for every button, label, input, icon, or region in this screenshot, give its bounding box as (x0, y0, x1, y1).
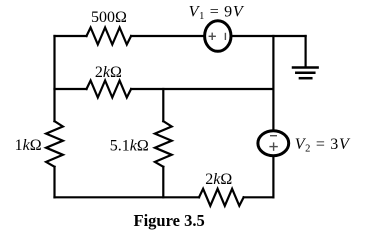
ground bar 3 (300, 77, 311, 80)
wire right rail upper segment (272, 36, 274, 131)
wire bottom rail right segment (244, 196, 274, 198)
wire left rail upper segment (53, 36, 55, 121)
svg-text:Figure 3.5: Figure 3.5 (134, 211, 205, 230)
svg-text:2kΩ: 2kΩ (95, 64, 122, 81)
ground stem (305, 36, 307, 67)
resistor R3 1kohm zigzag (46, 121, 63, 167)
resistor R4 5.1kohm zigzag (155, 121, 172, 167)
voltage source V1 body (205, 21, 231, 52)
resistor R1 500ohm zigzag (87, 28, 132, 45)
wire middle branch lower segment (162, 167, 164, 198)
wire middle branch upper segment (162, 89, 164, 121)
svg-text:5.1kΩ: 5.1kΩ (110, 137, 149, 154)
resistor R5 2kohm zigzag (199, 189, 244, 206)
ground bar 1 (293, 66, 318, 69)
ground bar 2 (296, 72, 314, 75)
resistor R2 2kohm zigzag (87, 81, 132, 98)
wire top rail right segment (231, 35, 306, 37)
wire middle rail right segment (131, 88, 273, 90)
wire top rail left segment (55, 35, 87, 37)
wire right rail lower segment (272, 156, 274, 198)
svg-text:2kΩ: 2kΩ (205, 171, 232, 188)
svg-text:V1 = 9V: V1 = 9V (189, 4, 245, 23)
voltage source V2 body (258, 131, 289, 156)
V1 minus bar (224, 33, 226, 40)
svg-text:V2 = 3V: V2 = 3V (295, 136, 351, 155)
wire middle rail left segment (55, 88, 87, 90)
wire left rail lower segment (53, 167, 55, 198)
svg-text:1kΩ: 1kΩ (15, 137, 42, 154)
svg-text:500Ω: 500Ω (91, 9, 127, 26)
V2 plus sign (269, 142, 277, 150)
V2 minus sign (270, 135, 277, 137)
wire bottom rail left segment (55, 196, 200, 198)
wire top rail middle segment to V1 (131, 35, 205, 37)
V1 plus sign (209, 33, 216, 40)
